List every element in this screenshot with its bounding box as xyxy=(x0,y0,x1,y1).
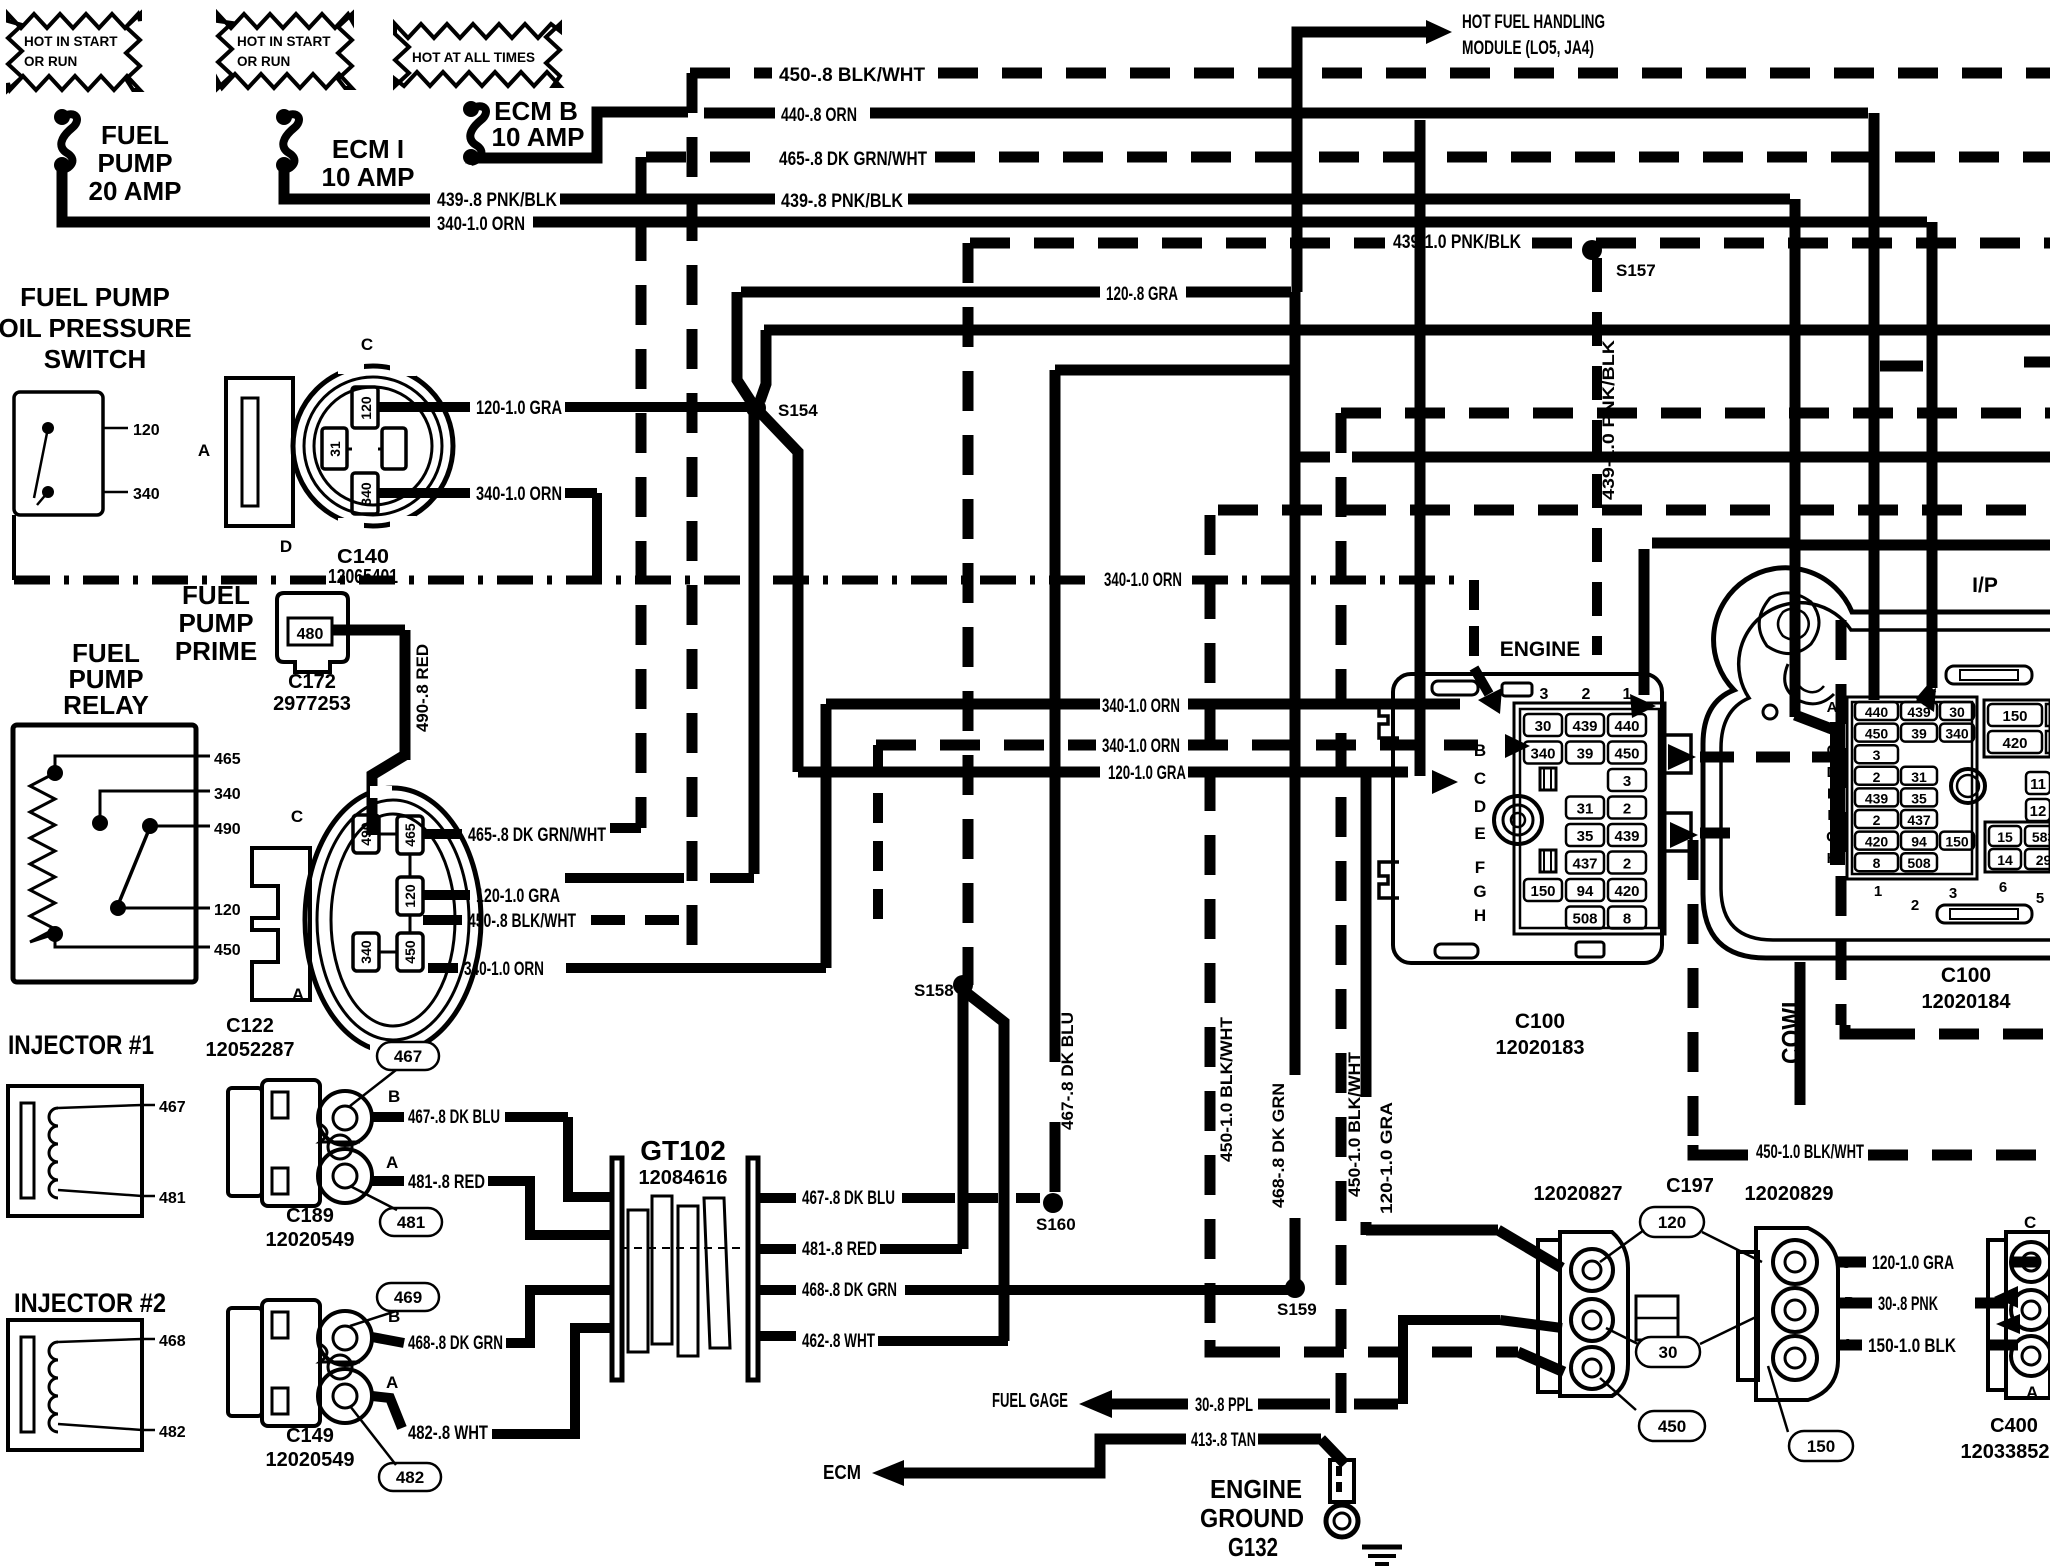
svg-text:12020549: 12020549 xyxy=(266,1229,355,1251)
svg-text:B: B xyxy=(1844,1295,1856,1312)
svg-text:S158: S158 xyxy=(914,981,954,1000)
svg-text:12020829: 12020829 xyxy=(1745,1183,1834,1205)
svg-text:120: 120 xyxy=(402,884,418,908)
svg-text:A: A xyxy=(386,1153,398,1172)
svg-text:481: 481 xyxy=(397,1213,425,1232)
svg-text:S159: S159 xyxy=(1277,1300,1317,1319)
svg-text:C400: C400 xyxy=(1990,1415,2038,1437)
svg-text:10 AMP: 10 AMP xyxy=(492,122,585,152)
svg-text:B: B xyxy=(1474,741,1486,760)
svg-text:31: 31 xyxy=(1577,801,1594,818)
svg-text:465: 465 xyxy=(402,823,418,847)
svg-text:120: 120 xyxy=(214,902,241,919)
svg-text:ENGINE: ENGINE xyxy=(1210,1474,1302,1504)
svg-text:468: 468 xyxy=(159,1333,186,1350)
svg-text:C100: C100 xyxy=(1515,1010,1565,1033)
svg-text:420: 420 xyxy=(1614,883,1639,900)
svg-text:490-.8 RED: 490-.8 RED xyxy=(413,644,432,732)
svg-text:94: 94 xyxy=(1911,834,1927,850)
svg-text:39: 39 xyxy=(1911,726,1927,742)
svg-text:508: 508 xyxy=(1572,911,1597,928)
svg-text:11: 11 xyxy=(2030,776,2046,793)
svg-text:C: C xyxy=(1474,769,1486,788)
svg-text:S160: S160 xyxy=(1036,1215,1076,1234)
svg-text:3: 3 xyxy=(1949,885,1957,902)
svg-text:RELAY: RELAY xyxy=(63,690,149,720)
svg-text:450: 450 xyxy=(402,940,418,964)
svg-text:467: 467 xyxy=(394,1047,422,1066)
svg-text:465: 465 xyxy=(214,751,241,768)
svg-text:2: 2 xyxy=(1911,897,1919,914)
svg-text:450-.8 BLK/WHT: 450-.8 BLK/WHT xyxy=(468,911,576,932)
svg-text:480: 480 xyxy=(297,626,324,643)
svg-text:420: 420 xyxy=(2002,735,2027,752)
svg-text:INJECTOR #2: INJECTOR #2 xyxy=(14,1288,166,1318)
svg-text:120-1.0 GRA: 120-1.0 GRA xyxy=(1377,1102,1396,1214)
svg-text:340: 340 xyxy=(1530,746,1555,763)
svg-text:440: 440 xyxy=(1614,718,1639,735)
svg-text:469: 469 xyxy=(394,1288,422,1307)
svg-text:12052287: 12052287 xyxy=(206,1039,295,1061)
svg-text:150: 150 xyxy=(1945,834,1969,850)
svg-text:3: 3 xyxy=(1623,773,1631,790)
svg-text:3: 3 xyxy=(1540,686,1549,703)
svg-text:30: 30 xyxy=(1949,704,1965,720)
svg-text:31: 31 xyxy=(327,441,343,457)
svg-text:340: 340 xyxy=(1945,726,1969,742)
svg-text:14: 14 xyxy=(1997,852,2013,868)
svg-text:583: 583 xyxy=(2032,829,2050,845)
svg-text:120: 120 xyxy=(358,396,374,420)
svg-text:340: 340 xyxy=(133,486,160,503)
svg-text:PUMP: PUMP xyxy=(97,148,172,178)
svg-text:120-1.0 GRA: 120-1.0 GRA xyxy=(1108,763,1186,784)
svg-text:A: A xyxy=(198,441,210,460)
svg-text:120-1.0 GRA: 120-1.0 GRA xyxy=(476,398,562,419)
svg-text:481: 481 xyxy=(159,1190,186,1207)
svg-text:GROUND: GROUND xyxy=(1200,1503,1304,1533)
svg-text:340-1.0 ORN: 340-1.0 ORN xyxy=(1102,696,1180,717)
svg-text:C: C xyxy=(2024,1213,2036,1232)
svg-text:HOT IN START: HOT IN START xyxy=(237,34,331,49)
svg-text:5: 5 xyxy=(2036,890,2044,907)
svg-text:340: 340 xyxy=(358,482,374,506)
svg-text:482: 482 xyxy=(159,1424,186,1441)
svg-text:12020827: 12020827 xyxy=(1534,1183,1623,1205)
svg-text:20 AMP: 20 AMP xyxy=(89,176,182,206)
svg-text:S157: S157 xyxy=(1616,261,1656,280)
svg-text:C140: C140 xyxy=(337,546,389,568)
svg-text:150: 150 xyxy=(1807,1437,1835,1456)
svg-text:450: 450 xyxy=(214,942,241,959)
svg-text:C: C xyxy=(291,807,303,826)
svg-text:450-.8 BLK/WHT: 450-.8 BLK/WHT xyxy=(779,65,925,86)
svg-text:30-.8 PPL: 30-.8 PPL xyxy=(1195,1395,1253,1416)
svg-text:C197: C197 xyxy=(1666,1175,1714,1197)
svg-text:468-.8 DK GRN: 468-.8 DK GRN xyxy=(802,1280,897,1301)
svg-text:120: 120 xyxy=(133,422,160,439)
svg-text:413-.8 TAN: 413-.8 TAN xyxy=(1191,1430,1256,1451)
svg-text:C100: C100 xyxy=(1941,964,1991,987)
svg-text:340: 340 xyxy=(214,786,241,803)
svg-text:F: F xyxy=(1475,858,1485,877)
svg-text:C: C xyxy=(1840,1255,1852,1272)
svg-text:B: B xyxy=(388,1087,400,1106)
svg-text:482: 482 xyxy=(396,1468,424,1487)
svg-text:120: 120 xyxy=(1658,1213,1686,1232)
svg-text:340: 340 xyxy=(358,940,374,964)
svg-text:465-.8 DK GRN/WHT: 465-.8 DK GRN/WHT xyxy=(779,149,927,170)
svg-text:35: 35 xyxy=(1577,828,1594,845)
svg-text:ENGINE: ENGINE xyxy=(1500,638,1581,661)
svg-text:SWITCH: SWITCH xyxy=(44,344,147,374)
svg-text:31: 31 xyxy=(1911,769,1927,785)
svg-text:12020184: 12020184 xyxy=(1922,991,2012,1013)
svg-text:OR RUN: OR RUN xyxy=(24,54,77,69)
svg-text:120-.8 GRA: 120-.8 GRA xyxy=(1106,284,1178,305)
svg-text:450: 450 xyxy=(1865,726,1889,742)
svg-text:GT102: GT102 xyxy=(640,1135,726,1166)
svg-text:OIL PRESSURE: OIL PRESSURE xyxy=(0,313,192,343)
svg-text:439-.8 PNK/BLK: 439-.8 PNK/BLK xyxy=(437,190,557,211)
svg-text:8: 8 xyxy=(1623,911,1631,928)
svg-text:12020549: 12020549 xyxy=(266,1449,355,1471)
svg-text:440: 440 xyxy=(1865,704,1889,720)
svg-text:D: D xyxy=(1474,797,1486,816)
svg-text:439-1.0 PNK/BLK: 439-1.0 PNK/BLK xyxy=(1599,339,1618,500)
svg-text:482-.8 WHT: 482-.8 WHT xyxy=(408,1423,488,1444)
svg-text:439: 439 xyxy=(1865,790,1889,806)
svg-text:OR RUN: OR RUN xyxy=(237,54,290,69)
svg-text:462-.8 WHT: 462-.8 WHT xyxy=(802,1331,875,1352)
svg-text:3: 3 xyxy=(1873,747,1881,763)
svg-text:E: E xyxy=(1474,824,1485,843)
svg-text:467: 467 xyxy=(159,1099,186,1116)
svg-text:I/P: I/P xyxy=(1972,574,1998,597)
svg-text:6: 6 xyxy=(1999,879,2007,896)
svg-text:15: 15 xyxy=(1997,829,2013,845)
svg-text:450-1.0 BLK/WHT: 450-1.0 BLK/WHT xyxy=(1756,1142,1864,1163)
svg-text:2: 2 xyxy=(1873,769,1881,785)
svg-text:C: C xyxy=(361,335,373,354)
svg-text:A: A xyxy=(292,985,304,1004)
svg-text:340-1.0 ORN: 340-1.0 ORN xyxy=(464,959,544,980)
svg-text:FUEL: FUEL xyxy=(182,580,250,610)
svg-text:A: A xyxy=(386,1373,398,1392)
svg-text:30: 30 xyxy=(1535,718,1552,735)
svg-text:S154: S154 xyxy=(778,401,818,420)
svg-text:G: G xyxy=(1473,882,1486,901)
svg-text:C172: C172 xyxy=(288,671,336,693)
svg-text:A: A xyxy=(1827,699,1838,716)
svg-text:G132: G132 xyxy=(1228,1532,1278,1562)
svg-text:MODULE (LO5, JA4): MODULE (LO5, JA4) xyxy=(1462,38,1594,59)
svg-text:INJECTOR #1: INJECTOR #1 xyxy=(8,1030,154,1060)
svg-text:2977253: 2977253 xyxy=(273,693,351,715)
svg-text:468-.8 DK GRN: 468-.8 DK GRN xyxy=(1269,1083,1288,1208)
svg-text:29: 29 xyxy=(2036,852,2050,868)
svg-text:340-1.0 ORN: 340-1.0 ORN xyxy=(1104,570,1182,591)
svg-text:HOT IN START: HOT IN START xyxy=(24,34,118,49)
svg-text:FUEL GAGE: FUEL GAGE xyxy=(992,1390,1068,1412)
svg-text:120-1.0 GRA: 120-1.0 GRA xyxy=(1872,1253,1954,1274)
svg-text:450: 450 xyxy=(1614,746,1639,763)
svg-text:490: 490 xyxy=(214,821,241,838)
svg-text:1: 1 xyxy=(1874,883,1882,900)
svg-text:508: 508 xyxy=(1907,855,1931,871)
svg-text:C189: C189 xyxy=(286,1205,334,1227)
svg-text:2: 2 xyxy=(1873,812,1881,828)
svg-text:35: 35 xyxy=(1911,790,1927,806)
svg-text:ECM: ECM xyxy=(823,1462,861,1484)
svg-text:467-.8 DK BLU: 467-.8 DK BLU xyxy=(802,1188,895,1209)
svg-text:94: 94 xyxy=(1577,883,1594,900)
svg-text:12033852: 12033852 xyxy=(1961,1441,2050,1463)
svg-text:120-1.0 GRA: 120-1.0 GRA xyxy=(476,886,560,907)
svg-text:12065401: 12065401 xyxy=(328,566,398,588)
svg-text:D: D xyxy=(280,537,292,556)
svg-text:HOT AT ALL TIMES: HOT AT ALL TIMES xyxy=(412,50,535,65)
svg-text:10 AMP: 10 AMP xyxy=(322,162,415,192)
svg-text:481-.8 RED: 481-.8 RED xyxy=(408,1172,485,1193)
svg-text:340-1.0 ORN: 340-1.0 ORN xyxy=(437,214,525,235)
svg-text:PRIME: PRIME xyxy=(175,636,257,666)
svg-text:30-.8 PNK: 30-.8 PNK xyxy=(1878,1294,1938,1315)
svg-text:H: H xyxy=(1474,906,1486,925)
svg-text:465-.8 DK GRN/WHT: 465-.8 DK GRN/WHT xyxy=(468,825,606,846)
svg-text:340-1.0 ORN: 340-1.0 ORN xyxy=(476,484,562,505)
svg-text:PUMP: PUMP xyxy=(178,608,253,638)
svg-text:439: 439 xyxy=(1572,718,1597,735)
svg-text:150: 150 xyxy=(2002,708,2027,725)
svg-text:439: 439 xyxy=(1614,828,1639,845)
svg-text:2: 2 xyxy=(1582,686,1591,703)
svg-text:439-.8 PNK/BLK: 439-.8 PNK/BLK xyxy=(781,191,903,212)
svg-text:467-.8 DK BLU: 467-.8 DK BLU xyxy=(1058,1012,1077,1130)
svg-text:2: 2 xyxy=(1623,856,1631,873)
svg-text:420: 420 xyxy=(1865,834,1889,850)
svg-text:440-.8 ORN: 440-.8 ORN xyxy=(781,105,857,126)
svg-text:150: 150 xyxy=(1530,883,1555,900)
svg-text:FUEL: FUEL xyxy=(101,120,169,150)
svg-text:2: 2 xyxy=(1623,801,1631,818)
svg-text:437: 437 xyxy=(1907,812,1931,828)
svg-text:340-1.0 ORN: 340-1.0 ORN xyxy=(1102,736,1180,757)
svg-text:12020183: 12020183 xyxy=(1496,1037,1585,1059)
svg-text:150-1.0 BLK: 150-1.0 BLK xyxy=(1868,1336,1956,1357)
svg-text:450-1.0 BLK/WHT: 450-1.0 BLK/WHT xyxy=(1345,1051,1364,1197)
svg-text:8: 8 xyxy=(1873,855,1881,871)
svg-text:481-.8 RED: 481-.8 RED xyxy=(802,1239,877,1260)
svg-text:439-1.0 PNK/BLK: 439-1.0 PNK/BLK xyxy=(1393,232,1521,253)
svg-text:HOT FUEL HANDLING: HOT FUEL HANDLING xyxy=(1462,12,1605,33)
svg-text:450-1.0 BLK/WHT: 450-1.0 BLK/WHT xyxy=(1217,1016,1236,1162)
svg-text:12084616: 12084616 xyxy=(639,1167,728,1189)
svg-text:39: 39 xyxy=(1577,746,1594,763)
svg-text:490: 490 xyxy=(358,822,374,846)
svg-text:ECM I: ECM I xyxy=(332,134,404,164)
svg-text:C149: C149 xyxy=(286,1425,334,1447)
svg-text:FUEL PUMP: FUEL PUMP xyxy=(20,282,170,312)
svg-text:450: 450 xyxy=(1658,1417,1686,1436)
svg-text:437: 437 xyxy=(1572,856,1597,873)
svg-text:12: 12 xyxy=(2030,803,2047,820)
svg-text:468-.8 DK GRN: 468-.8 DK GRN xyxy=(408,1333,503,1354)
svg-text:467-.8 DK BLU: 467-.8 DK BLU xyxy=(408,1107,500,1128)
svg-text:C122: C122 xyxy=(226,1015,274,1037)
svg-text:B: B xyxy=(388,1307,400,1326)
svg-text:A: A xyxy=(1842,1337,1854,1354)
svg-text:30: 30 xyxy=(1659,1343,1678,1362)
svg-text:1: 1 xyxy=(1623,686,1632,703)
